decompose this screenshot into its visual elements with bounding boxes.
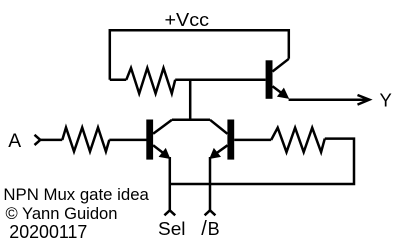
transistor Q2 xyxy=(209,120,234,160)
resistor R2 xyxy=(62,128,109,152)
wire Vcc rail xyxy=(110,30,289,80)
wire base bus xyxy=(110,79,266,82)
label A xyxy=(8,131,21,152)
wire Q2 emitter to /B xyxy=(209,157,212,210)
resistor R1 xyxy=(126,68,175,94)
label Sel xyxy=(158,219,186,239)
resistor R3 xyxy=(271,128,325,152)
wire A to R2 xyxy=(40,139,62,142)
label date xyxy=(9,222,87,242)
svg-text:© Yann Guidon: © Yann Guidon xyxy=(6,204,118,223)
label +Vcc xyxy=(165,10,210,30)
wire R3 feedback return xyxy=(170,139,354,184)
label title xyxy=(3,185,149,204)
node Y arrow xyxy=(358,95,370,105)
svg-text:/: / xyxy=(201,218,207,240)
wire Q1 emitter to Sel xyxy=(169,157,172,210)
transistor Q3 xyxy=(266,59,290,99)
label Y xyxy=(380,90,392,111)
wire R2 to Q1 base xyxy=(109,139,146,142)
wire collector trapezoid top xyxy=(172,119,210,122)
wire collector junction drop xyxy=(189,80,192,120)
node A xyxy=(35,135,41,145)
svg-text:20200117: 20200117 xyxy=(9,222,87,242)
node /B terminal xyxy=(205,210,216,215)
svg-text:NPN Mux gate idea: NPN Mux gate idea xyxy=(3,185,149,204)
label /B xyxy=(201,218,219,240)
svg-text:+Vcc: +Vcc xyxy=(165,10,210,30)
label author xyxy=(6,204,118,223)
svg-text:B: B xyxy=(208,219,220,239)
wire Q2 base to R3 xyxy=(234,139,271,142)
svg-text:A: A xyxy=(8,131,21,152)
node Sel terminal xyxy=(164,210,175,215)
transistor Q1 xyxy=(146,120,172,160)
wire Q3 emitter to Y xyxy=(289,98,369,101)
svg-text:Y: Y xyxy=(380,90,392,111)
svg-text:Sel: Sel xyxy=(158,219,186,239)
